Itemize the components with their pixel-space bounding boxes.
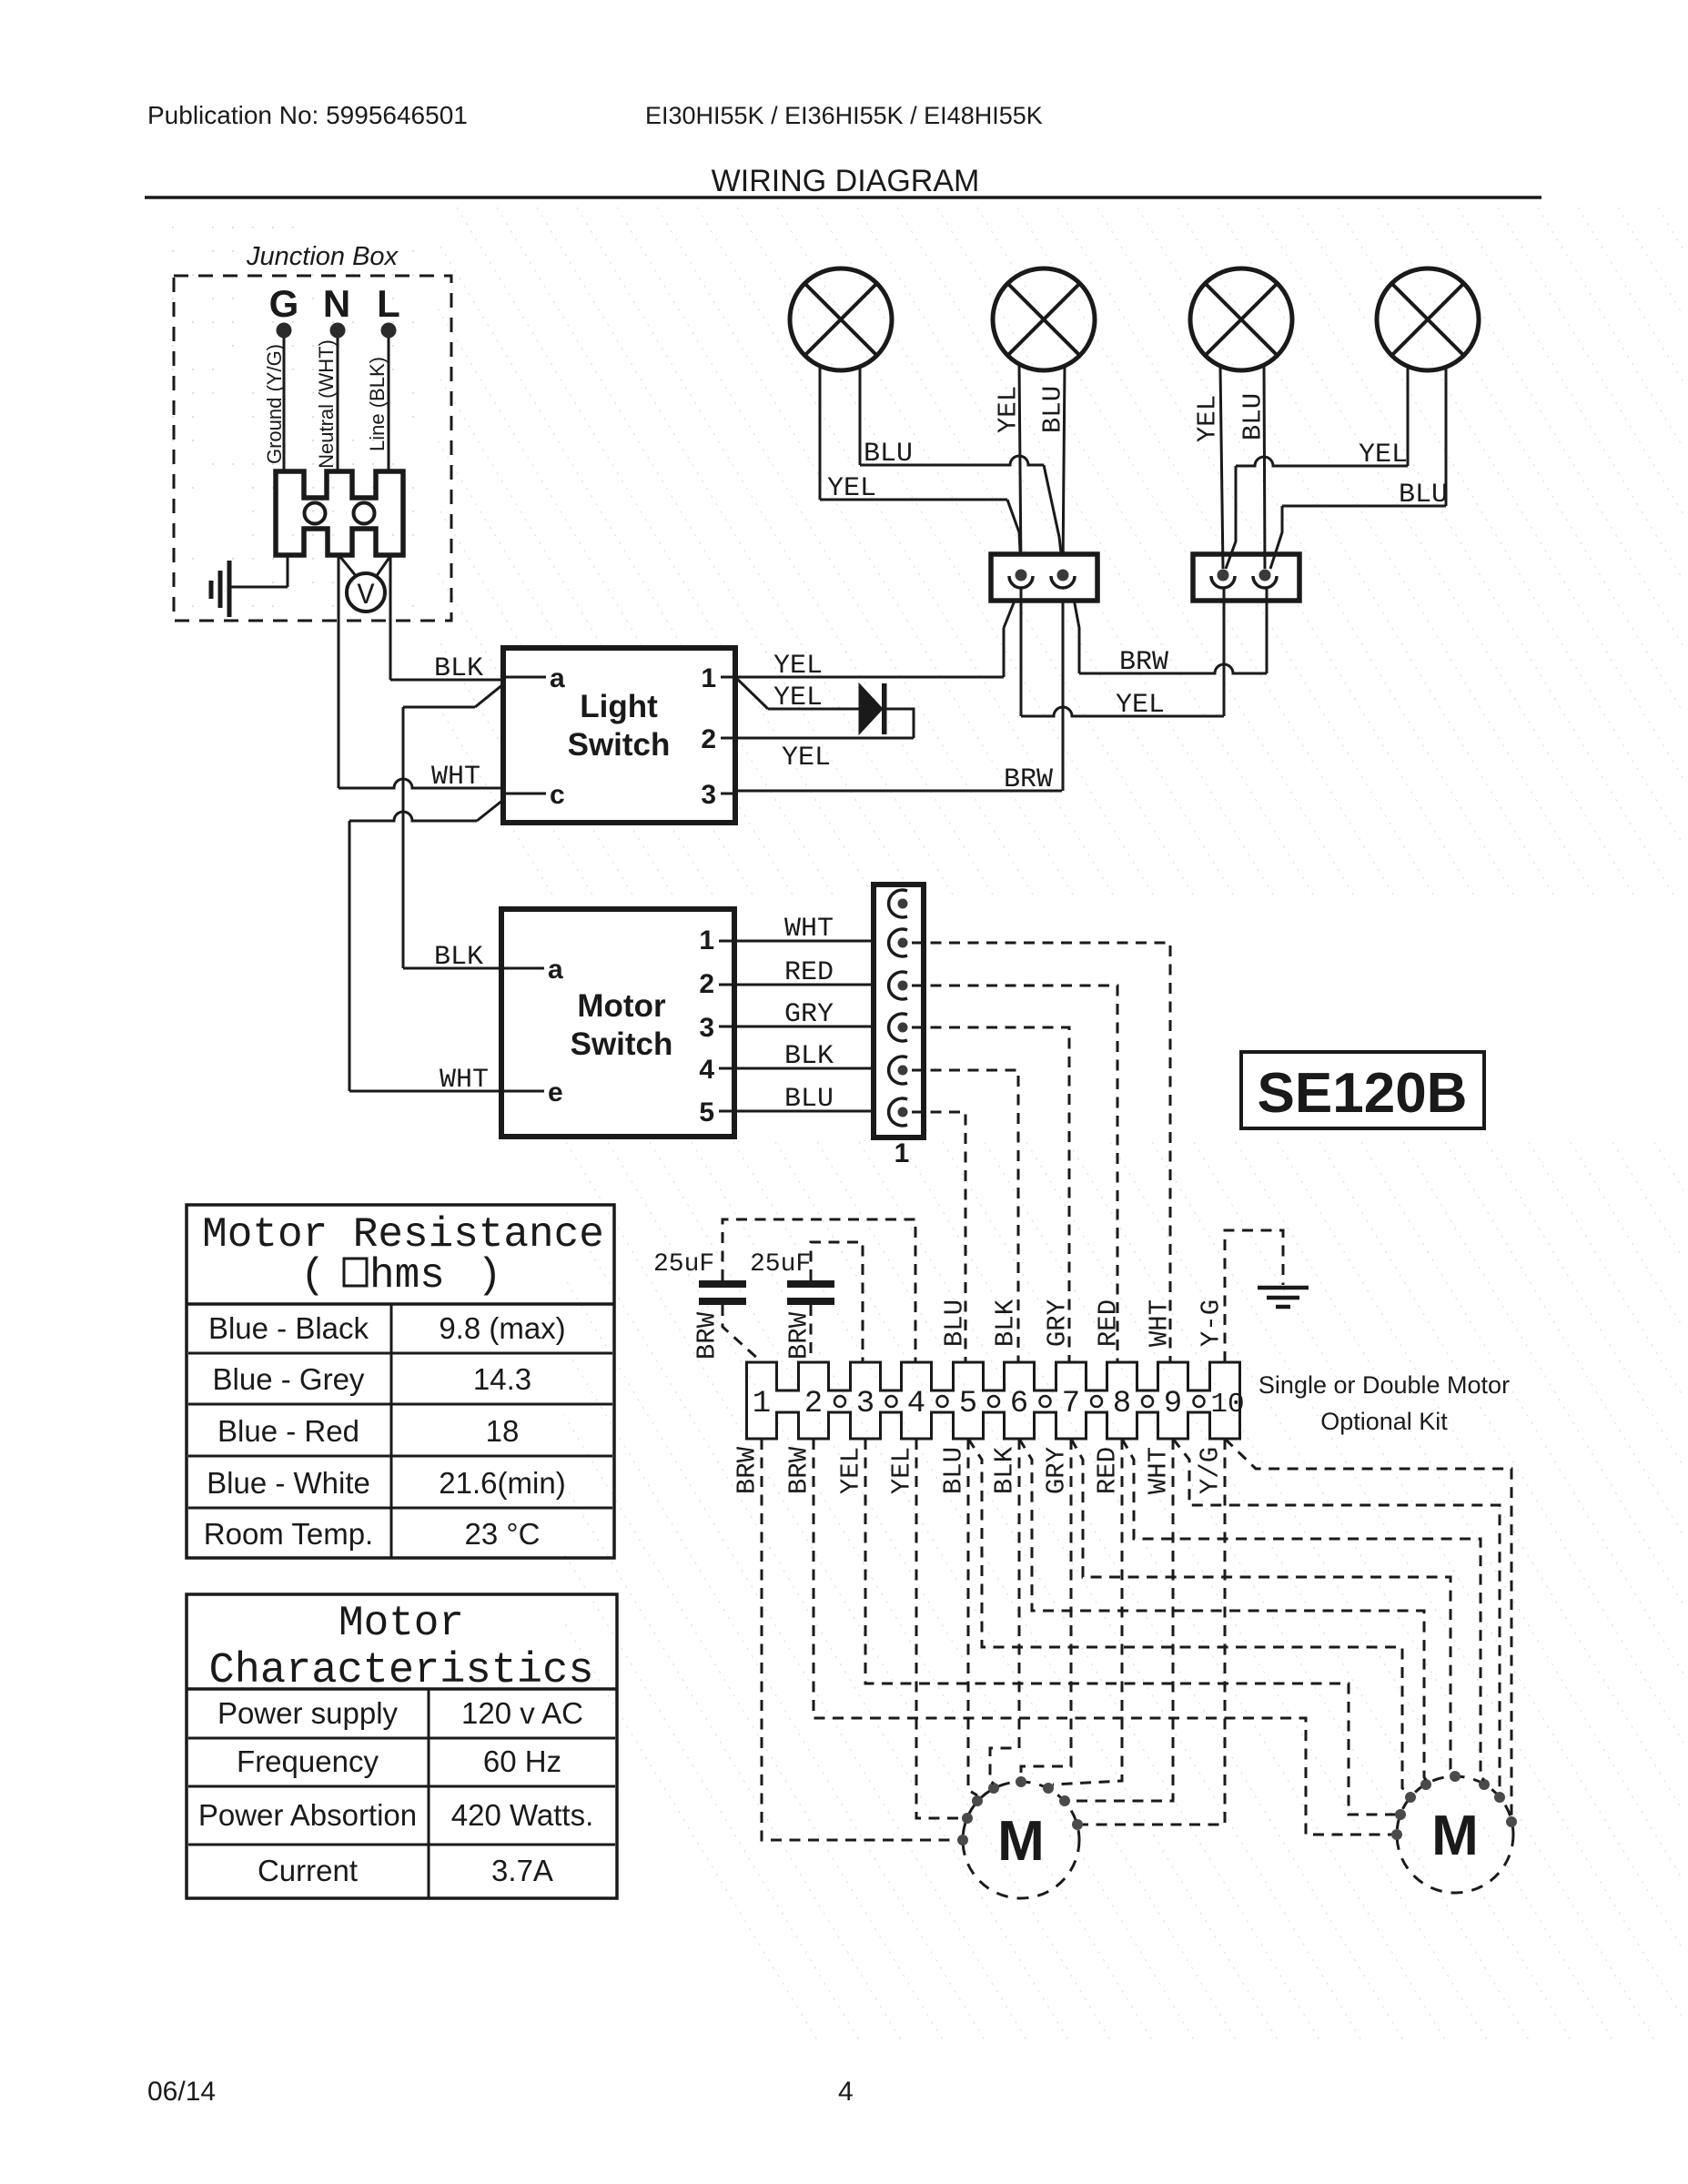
TB1 divider hole bbox=[1194, 1396, 1205, 1407]
caption single or double motor bbox=[1258, 1371, 1510, 1435]
light switch pin ticks bbox=[503, 677, 735, 794]
wire L1 YEL horizontal bbox=[820, 499, 1007, 501]
svg-text:Motor: Motor bbox=[339, 1600, 464, 1647]
svg-text:2: 2 bbox=[701, 724, 716, 754]
svg-text:YEL: YEL bbox=[1116, 690, 1165, 721]
terminal dot N bbox=[330, 323, 346, 339]
wire L3 YEL vertical bbox=[1220, 368, 1223, 569]
svg-text:1: 1 bbox=[701, 663, 716, 693]
svg-text:RED: RED bbox=[784, 957, 834, 988]
svg-text:GRY: GRY bbox=[1042, 1447, 1072, 1494]
terminal dot G bbox=[277, 323, 292, 339]
svg-text:a: a bbox=[550, 663, 565, 693]
wire L line down bbox=[389, 555, 392, 680]
svg-text:BLK: BLK bbox=[784, 1041, 834, 1072]
wire BLU motor pin bbox=[734, 1110, 887, 1113]
svg-text:YEL: YEL bbox=[1359, 440, 1408, 470]
svg-text:4: 4 bbox=[838, 2077, 854, 2107]
wire WHT branch vertical bbox=[349, 821, 351, 1091]
dashed wire YEL pin3 to M2 bbox=[865, 1439, 1395, 1815]
svg-text:V: V bbox=[357, 579, 375, 612]
svg-text:WHT: WHT bbox=[431, 762, 480, 793]
voltmeter lead left bbox=[340, 557, 357, 577]
svg-text:YEL: YEL bbox=[994, 386, 1024, 433]
svg-text:23 °C: 23 °C bbox=[465, 1517, 541, 1551]
dashed wire YEL pin4 to M1 bbox=[916, 1439, 962, 1818]
wire WHT motor pin bbox=[734, 940, 887, 943]
svg-text:Single or Double Motor: Single or Double Motor bbox=[1258, 1371, 1510, 1399]
svg-text:06/14: 06/14 bbox=[147, 2077, 216, 2107]
dashed wire C1 to pin4 bbox=[723, 1219, 915, 1362]
svg-text:1: 1 bbox=[699, 925, 714, 955]
terminal block hole 2 bbox=[354, 503, 375, 524]
svg-text:WHT: WHT bbox=[440, 1065, 489, 1096]
dashed wire BLK pin6 to M2 bbox=[1019, 1439, 1426, 1780]
wire YEL anode bbox=[768, 708, 859, 711]
svg-text:Current: Current bbox=[258, 1854, 358, 1887]
wire N neutral down bbox=[338, 555, 340, 788]
lamp connector CN1 bbox=[991, 554, 1097, 601]
svg-text:BLU: BLU bbox=[1238, 393, 1269, 440]
svg-text:YEL: YEL bbox=[773, 651, 823, 682]
wire L4 YEL vertical bbox=[1407, 367, 1410, 466]
svg-text:Optional Kit: Optional Kit bbox=[1320, 1408, 1448, 1435]
motor resistance table grid bbox=[187, 1205, 614, 1558]
svg-text:8: 8 bbox=[1113, 1387, 1131, 1421]
wire L4 BLU vertical bbox=[1445, 367, 1448, 506]
wire YEL CN1 to CN2 vertical bbox=[1020, 587, 1023, 716]
voltmeter lead right bbox=[376, 556, 390, 577]
svg-text:WHT: WHT bbox=[1145, 1299, 1175, 1347]
wire WHT branch diagonal bbox=[477, 800, 503, 821]
dashed wire Y/G pin10 to M1 bbox=[1083, 1439, 1225, 1825]
svg-text:YEL: YEL bbox=[887, 1447, 917, 1494]
svg-text:BRW: BRW bbox=[1119, 647, 1168, 678]
junction terminal block bbox=[276, 471, 403, 555]
table row Blue - Red bbox=[217, 1414, 519, 1448]
TB1 divider hole bbox=[1142, 1396, 1153, 1407]
dashed wire Y-G to earth bbox=[1225, 1230, 1283, 1362]
svg-text:WIRING DIAGRAM: WIRING DIAGRAM bbox=[712, 164, 980, 198]
dashed wire GRY pin7 to M2 bbox=[1071, 1439, 1455, 1772]
svg-text:25uF: 25uF bbox=[750, 1250, 811, 1279]
svg-text:M: M bbox=[1431, 1805, 1479, 1867]
wire L4 YEL horizontal bbox=[1236, 457, 1408, 466]
svg-text:Power Absortion: Power Absortion bbox=[198, 1798, 417, 1832]
dashed wire BRW pin1 to M1 bbox=[762, 1439, 957, 1840]
svg-text:(: ( bbox=[300, 1252, 326, 1299]
dashed wire BLU pin5 to M1 bbox=[968, 1439, 977, 1795]
wire BLK motor pin bbox=[734, 1067, 887, 1070]
wire L1 YEL vertical bbox=[819, 366, 822, 500]
wire L4 BLU corner bbox=[1270, 506, 1282, 569]
wire BRW CN2 drop bbox=[1266, 588, 1269, 673]
svg-text:BLU: BLU bbox=[1399, 480, 1448, 511]
light switch title bbox=[568, 689, 671, 763]
svg-text:BRW: BRW bbox=[784, 1446, 814, 1494]
lamp L1 bbox=[790, 268, 892, 370]
wire BRW CN1 diag bbox=[1074, 599, 1079, 673]
svg-text:BRW: BRW bbox=[733, 1446, 763, 1494]
svg-text:Y-G: Y-G bbox=[1197, 1299, 1227, 1347]
wire L1 BLU diag to CN1 bbox=[1044, 465, 1063, 569]
svg-text:3.7A: 3.7A bbox=[491, 1854, 553, 1887]
svg-text:BLK: BLK bbox=[434, 942, 483, 973]
svg-text:YEL: YEL bbox=[1193, 395, 1223, 442]
svg-text:Motor: Motor bbox=[577, 988, 666, 1024]
light switch box bbox=[503, 648, 735, 823]
dashed wire C2 to pin2 bbox=[810, 1305, 813, 1362]
table row Frequency bbox=[237, 1744, 561, 1778]
svg-text:BLU: BLU bbox=[784, 1084, 834, 1115]
svg-text:Power supply: Power supply bbox=[217, 1696, 399, 1730]
svg-text:N: N bbox=[323, 282, 350, 325]
svg-text:YEL: YEL bbox=[827, 473, 876, 504]
svg-text:2: 2 bbox=[804, 1387, 823, 1421]
svg-text:BRW: BRW bbox=[1004, 764, 1053, 795]
svg-text:YEL: YEL bbox=[836, 1447, 866, 1494]
wire L1 YEL diag to CN1 bbox=[1007, 500, 1021, 569]
svg-text:5: 5 bbox=[959, 1387, 977, 1421]
lamp L3 bbox=[1190, 268, 1292, 370]
motor characteristics table grid bbox=[187, 1594, 617, 1898]
svg-text:120 v AC: 120 v AC bbox=[461, 1696, 583, 1730]
svg-text:6: 6 bbox=[1010, 1387, 1028, 1421]
svg-text:RED: RED bbox=[1093, 1447, 1123, 1494]
motor switch box bbox=[501, 909, 734, 1137]
svg-text:e: e bbox=[548, 1077, 563, 1107]
wire YEL pin1 bbox=[735, 676, 1004, 679]
svg-text:G: G bbox=[269, 282, 299, 325]
table row Power Absortion bbox=[198, 1798, 593, 1832]
terminal strip TB1 bbox=[747, 1362, 1240, 1439]
earth ground symbol right bbox=[1258, 1288, 1309, 1307]
lamp L2 bbox=[993, 268, 1095, 370]
wire YEL diode diagonal bbox=[735, 677, 768, 709]
junction box dashed outline bbox=[174, 276, 451, 621]
wire L1 BLU horizontal bbox=[860, 456, 1044, 465]
svg-text:Room Temp.: Room Temp. bbox=[204, 1517, 373, 1551]
svg-text:SE120B: SE120B bbox=[1258, 1062, 1468, 1125]
wire BLK branch diagonal bbox=[475, 684, 503, 707]
svg-text:3: 3 bbox=[856, 1387, 874, 1421]
svg-text:GRY: GRY bbox=[1043, 1299, 1073, 1347]
TB1 divider hole bbox=[886, 1396, 897, 1407]
svg-text:Switch: Switch bbox=[568, 727, 671, 763]
svg-text:Ground (Y/G): Ground (Y/G) bbox=[263, 344, 286, 464]
svg-text:c: c bbox=[550, 780, 565, 810]
dashed wire WHT pin9 to M1 bbox=[1070, 1439, 1173, 1801]
svg-text:Characteristics: Characteristics bbox=[208, 1647, 593, 1695]
dashed wire BRW pin2 to M2 bbox=[814, 1439, 1391, 1835]
TB1 divider hole bbox=[834, 1396, 845, 1407]
svg-text:420 Watts.: 420 Watts. bbox=[451, 1798, 594, 1832]
svg-text:BLK: BLK bbox=[990, 1446, 1020, 1494]
wire L2 YEL vertical bbox=[1019, 364, 1021, 569]
svg-text:L: L bbox=[377, 282, 400, 325]
svg-text:BRW: BRW bbox=[784, 1311, 814, 1360]
svg-text:Switch: Switch bbox=[571, 1026, 673, 1062]
wire L dot to block bbox=[388, 338, 390, 472]
svg-text:18: 18 bbox=[486, 1414, 520, 1448]
TB1 divider hole bbox=[937, 1396, 948, 1407]
svg-text:21.6(min): 21.6(min) bbox=[439, 1466, 565, 1500]
svg-text:M: M bbox=[997, 1810, 1045, 1873]
TB1 divider hole bbox=[1091, 1396, 1102, 1407]
svg-text:BLK: BLK bbox=[991, 1299, 1021, 1347]
table row Power supply bbox=[217, 1696, 583, 1730]
wire N dot to block bbox=[337, 338, 339, 472]
svg-text:5: 5 bbox=[699, 1097, 714, 1127]
svg-text:Blue - Grey: Blue - Grey bbox=[213, 1362, 365, 1396]
table row Blue - Black bbox=[208, 1311, 566, 1345]
motor resistance title ohms bbox=[300, 1252, 502, 1299]
svg-text:25uF: 25uF bbox=[653, 1250, 714, 1279]
svg-text:60 Hz: 60 Hz bbox=[483, 1744, 561, 1778]
terminals G N L labels bbox=[269, 282, 400, 325]
motor M1 terminals bbox=[957, 1776, 1083, 1845]
dashed wire RED pin8 to M1 bbox=[1053, 1439, 1122, 1785]
wire L4 BLU horizontal bbox=[1282, 505, 1446, 508]
wire BRW CN1 to CN2 bbox=[1079, 664, 1267, 673]
svg-text:Junction Box: Junction Box bbox=[246, 242, 399, 271]
capacitor C1 plates bbox=[699, 1280, 746, 1305]
dashed wire WHT CN3 to strip bbox=[912, 943, 1170, 1362]
wire L2 BLU vertical bbox=[1063, 366, 1065, 569]
motor characteristics title bbox=[208, 1600, 593, 1695]
wire L3 BLU vertical bbox=[1264, 364, 1265, 569]
terminal dot L bbox=[381, 323, 397, 339]
wire L4 YEL corner bbox=[1226, 466, 1236, 569]
wire YEL pin1 diag to CN1 bbox=[1004, 596, 1016, 628]
dashed wire RED CN3 to strip bbox=[912, 986, 1117, 1362]
svg-text:Frequency: Frequency bbox=[237, 1744, 379, 1778]
lamp L4 bbox=[1377, 268, 1479, 370]
wire WHT branch horizontal bbox=[349, 812, 477, 821]
svg-text:BLU: BLU bbox=[940, 1299, 970, 1347]
dashed wire RED pin8 to M2 bbox=[1122, 1439, 1484, 1780]
wire BLK branch vertical bbox=[402, 707, 405, 968]
svg-text:4: 4 bbox=[699, 1055, 714, 1085]
connector strip CN3 bbox=[874, 885, 924, 1137]
wire YEL pin2 bbox=[735, 737, 914, 740]
svg-text:BLU: BLU bbox=[864, 439, 913, 470]
dashed wire C1 to pin1 bbox=[723, 1305, 760, 1360]
svg-text:3: 3 bbox=[699, 1013, 714, 1043]
lamp connector CN2 bbox=[1193, 554, 1299, 601]
dashed wire BLU pin5 to M2 bbox=[968, 1439, 1410, 1793]
wire YEL pin1 riser bbox=[1003, 628, 1006, 677]
svg-text:9: 9 bbox=[1164, 1387, 1182, 1421]
table row Blue - White bbox=[207, 1466, 566, 1500]
table row Blue - Grey bbox=[213, 1362, 532, 1396]
capacitor C2 plates bbox=[787, 1280, 834, 1305]
dashed wire GRY pin7 to M1 bbox=[1021, 1439, 1071, 1777]
svg-text:7: 7 bbox=[1062, 1387, 1080, 1421]
svg-text:1: 1 bbox=[895, 1138, 910, 1168]
svg-text:GRY: GRY bbox=[784, 999, 834, 1030]
svg-text:Blue - Black: Blue - Black bbox=[208, 1311, 369, 1345]
wire BLK to motor switch a bbox=[403, 967, 501, 970]
svg-text:10: 10 bbox=[1210, 1389, 1244, 1421]
voltmeter V circle bbox=[347, 573, 385, 612]
wire BRW riser to CN1 bbox=[1062, 588, 1065, 791]
svg-text:BLK: BLK bbox=[434, 653, 483, 684]
svg-text:RED: RED bbox=[1094, 1299, 1124, 1347]
svg-text:EI30HI55K / EI36HI55K / EI48HI: EI30HI55K / EI36HI55K / EI48HI55K bbox=[645, 102, 1043, 129]
svg-text:BRW: BRW bbox=[692, 1311, 723, 1360]
SE120B badge box bbox=[1241, 1052, 1484, 1128]
motor switch pin ticks bbox=[501, 941, 734, 1111]
wire L1 BLU vertical bbox=[859, 367, 862, 465]
svg-text:BLU: BLU bbox=[1038, 386, 1068, 433]
table row Room Temp. bbox=[204, 1517, 541, 1551]
wire WHT to light switch c bbox=[339, 779, 503, 788]
wire BLK to light switch a bbox=[390, 679, 503, 682]
motor switch title bbox=[571, 988, 673, 1062]
wire diode out bbox=[886, 709, 914, 738]
wire YEL CN1 to CN2 bbox=[1021, 707, 1224, 716]
svg-text:Light: Light bbox=[580, 689, 658, 724]
dashed wire BLK CN3 to strip bbox=[912, 1070, 1018, 1362]
diode D1 triangle bbox=[859, 683, 883, 734]
svg-text:9.8 (max): 9.8 (max) bbox=[439, 1311, 565, 1345]
wire G dot to block bbox=[283, 338, 286, 472]
wire GRY motor pin bbox=[734, 1026, 887, 1028]
motor M1 bbox=[963, 1782, 1079, 1898]
svg-text:Y/G: Y/G bbox=[1196, 1447, 1226, 1494]
svg-text:Line (BLK): Line (BLK) bbox=[366, 357, 389, 451]
diode D1 cathode bar bbox=[882, 683, 887, 734]
earth ground symbol bbox=[211, 555, 288, 617]
svg-text:Blue - White: Blue - White bbox=[207, 1466, 370, 1500]
title rule bbox=[145, 196, 1541, 199]
dashed wire C2 to pin3 bbox=[811, 1242, 863, 1362]
dashed wire GRY CN3 to strip bbox=[912, 1027, 1069, 1362]
svg-text:YEL: YEL bbox=[773, 682, 823, 713]
svg-text:WHT: WHT bbox=[784, 914, 834, 945]
wire BRW pin3 bbox=[735, 790, 1062, 793]
svg-text:YEL: YEL bbox=[782, 743, 831, 773]
wire RED motor pin bbox=[734, 984, 887, 986]
svg-text:1: 1 bbox=[753, 1387, 771, 1421]
svg-text:a: a bbox=[548, 955, 563, 985]
svg-text:Neutral (WHT): Neutral (WHT) bbox=[315, 339, 338, 469]
svg-text:4: 4 bbox=[907, 1387, 925, 1421]
svg-text:): ) bbox=[477, 1252, 502, 1299]
dashed wire BLU CN3 to strip bbox=[912, 1112, 965, 1362]
svg-text:Blue - Red: Blue - Red bbox=[217, 1414, 359, 1448]
wire BLK branch horizontal bbox=[403, 706, 475, 709]
dashed wire BLK pin6 to M1 bbox=[990, 1439, 1019, 1784]
terminal block hole 1 bbox=[305, 503, 326, 524]
dashed wire Y/G pin10 to M2 bbox=[1225, 1439, 1511, 1817]
TB1 divider hole bbox=[988, 1396, 999, 1407]
svg-text:Publication No: 5995646501: Publication No: 5995646501 bbox=[147, 101, 468, 129]
dashed wire WHT pin9 to M2 bbox=[1173, 1439, 1500, 1793]
svg-text:BLU: BLU bbox=[939, 1447, 969, 1494]
svg-text:14.3: 14.3 bbox=[473, 1362, 531, 1396]
motor M2 bbox=[1397, 1776, 1513, 1893]
svg-text:hms: hms bbox=[369, 1252, 445, 1299]
wire YEL CN2 drop bbox=[1223, 588, 1226, 716]
svg-text:2: 2 bbox=[699, 969, 714, 999]
TB1 divider hole bbox=[1040, 1396, 1051, 1407]
svg-text:3: 3 bbox=[701, 780, 716, 810]
table row Current bbox=[258, 1854, 553, 1887]
svg-text:WHT: WHT bbox=[1144, 1447, 1174, 1494]
motor M2 terminals bbox=[1391, 1771, 1517, 1840]
wire WHT to motor switch e bbox=[349, 1090, 501, 1093]
